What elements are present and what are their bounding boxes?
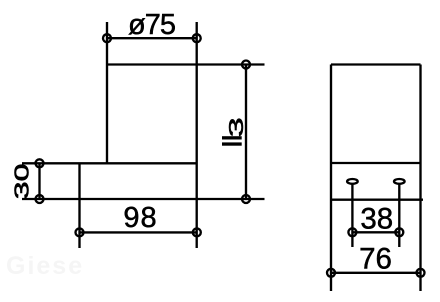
terminator circle 38 right — [395, 228, 403, 236]
terminator circle ø75 left — [103, 34, 111, 42]
right view: top edge — [331, 63, 421, 65]
left view: cup+plate right edge with ø75 ext above and 98 ext below — [196, 22, 198, 248]
screw slot left — [347, 179, 358, 184]
terminator circle 30 top — [36, 159, 44, 167]
terminator circle ø75 right — [193, 34, 201, 42]
terminator circle 98 right — [193, 228, 201, 236]
dimension line ø75 — [107, 37, 197, 39]
terminator circle 76 left — [327, 269, 335, 277]
terminator circle 98 left — [76, 228, 84, 236]
svg-text:3: 3 — [226, 117, 248, 137]
right view: right edge with 76 extension below — [419, 65, 421, 292]
slot left extension line — [351, 184, 353, 247]
left view: cup left edge with ø75 extension above — [106, 22, 108, 163]
svg-text:Giese: Giese — [6, 252, 84, 280]
terminator circle 38 left — [348, 228, 356, 236]
dimension line 38 — [352, 231, 399, 233]
label 113: rotated 3 plus two bars for the squeezed 11 — [222, 117, 248, 145]
terminator circle 113 top — [242, 61, 250, 69]
dimension line 76 — [331, 272, 421, 274]
dimension line 98 — [80, 231, 197, 233]
svg-text:ø75: ø75 — [128, 9, 175, 41]
dimension line 30 — [38, 163, 40, 199]
right view: plate bottom edge — [331, 199, 423, 201]
dimension line 113 — [245, 65, 247, 200]
slot right extension line — [398, 184, 400, 247]
left view: plate top edge with left tail — [22, 162, 197, 164]
right view: cup bottom / plate top edge — [331, 162, 421, 164]
terminator circle 113 bottom — [242, 195, 250, 203]
svg-text:38: 38 — [360, 202, 393, 235]
svg-text:98: 98 — [123, 202, 157, 234]
right view: left edge with 76 extension below — [330, 65, 332, 292]
left view: 98 left extension line — [78, 163, 80, 248]
svg-text:30: 30 — [10, 164, 32, 200]
terminator circle 76 right — [417, 269, 425, 277]
screw slot right — [394, 179, 405, 184]
terminator circle 30 bottom — [36, 195, 44, 203]
left view: cup top edge (extends right as 113 top extension) — [106, 63, 264, 65]
svg-text:76: 76 — [359, 243, 392, 276]
left view: plate bottom edge (extends right as 113 bottom extension) — [22, 198, 265, 200]
